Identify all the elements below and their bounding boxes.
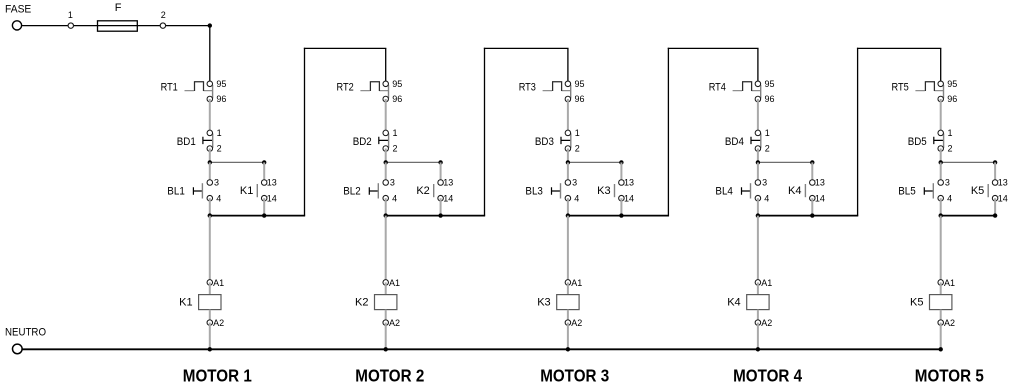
pin 4 of BL3 xyxy=(565,195,571,201)
wire: BL4.4 to node bottom of parallel section xyxy=(757,198,759,215)
svg-text:4: 4 xyxy=(947,193,952,203)
svg-text:3: 3 xyxy=(572,178,577,188)
wire: bottom rail to coil K4.A1 xyxy=(757,216,759,283)
junction node on NEUTRO xyxy=(756,347,760,351)
contact blade BD2 xyxy=(388,133,390,148)
junction node bottom right xyxy=(438,213,442,217)
junction node bottom left xyxy=(384,213,388,217)
terminal FASE xyxy=(12,21,21,30)
junction node at K4.13 branch xyxy=(810,160,814,164)
pin 3 of BL4 xyxy=(755,180,761,186)
junction node at K1.13 branch xyxy=(262,160,266,164)
pin 95 of RT1 xyxy=(207,81,213,87)
wire: parallel section bottom rail xyxy=(386,215,485,217)
svg-text:A1: A1 xyxy=(944,278,955,288)
contactor coil K5 xyxy=(930,295,952,310)
svg-text:K4: K4 xyxy=(788,185,801,197)
pin A1 of coil K1 xyxy=(207,280,213,286)
svg-text:F: F xyxy=(115,2,122,14)
wire: bottom rail to coil K1.A1 xyxy=(209,216,211,283)
svg-text:RT4: RT4 xyxy=(709,82,726,94)
wire: FASE line xyxy=(21,25,209,27)
wire: A1 to coil body xyxy=(209,282,211,294)
wire: A1 to coil body xyxy=(567,282,569,294)
svg-text:13: 13 xyxy=(267,178,277,188)
pin 13 of K3 xyxy=(619,180,625,186)
wire: node to BL3.3 xyxy=(567,162,569,182)
pin 2 of BD2 xyxy=(383,146,389,152)
wire: BD3.2 to node top of parallel section xyxy=(567,149,569,163)
svg-text:BL1: BL1 xyxy=(167,186,185,198)
pin 2 of BD4 xyxy=(755,146,761,152)
svg-text:95: 95 xyxy=(216,79,226,89)
wire: A1 to coil body xyxy=(940,282,942,294)
wire: K5.A2 to NEUTRO xyxy=(940,323,942,350)
contact blade RT1 xyxy=(212,85,214,99)
wire: K3.14 to bottom rail xyxy=(620,198,622,215)
wire: K3.A2 to NEUTRO xyxy=(567,323,569,350)
contact blade RT3 xyxy=(570,85,572,99)
pin 13 of K2 xyxy=(438,180,444,186)
pin 4 of BL5 xyxy=(938,195,944,201)
pin 14 of K3 xyxy=(619,195,625,201)
wire: supply drop to RT1 xyxy=(209,26,211,84)
svg-text:95: 95 xyxy=(392,79,402,89)
junction node bottom left xyxy=(208,213,212,217)
pin A2 of coil K2 xyxy=(383,320,389,326)
svg-text:2: 2 xyxy=(393,144,398,154)
wire: K2.A2 to NEUTRO xyxy=(385,323,387,350)
wire: feeder riser from MOTOR 4 section xyxy=(857,48,859,216)
wire: node to K5.13 xyxy=(994,162,996,182)
pushbutton BD3 actuator xyxy=(561,137,571,144)
junction node on NEUTRO xyxy=(939,347,943,351)
svg-text:BL2: BL2 xyxy=(343,186,361,198)
junction node at K5.13 branch xyxy=(993,160,997,164)
wire: supply drop to RT4 xyxy=(757,48,759,83)
svg-text:K2: K2 xyxy=(355,296,368,308)
wire: BL3.4 to node bottom of parallel section xyxy=(567,198,569,215)
junction node bottom left xyxy=(566,213,570,217)
pin 14 of K2 xyxy=(438,195,444,201)
wire: supply drop to RT5 xyxy=(940,48,942,83)
svg-text:2: 2 xyxy=(948,144,953,154)
svg-text:A2: A2 xyxy=(213,318,224,328)
junction node at K3.13 branch xyxy=(619,160,623,164)
pin 4 of BL4 xyxy=(755,195,761,201)
wire: node to BL1.3 xyxy=(209,162,211,182)
svg-text:MOTOR 1: MOTOR 1 xyxy=(183,366,252,386)
pin 2 of BD3 xyxy=(565,146,571,152)
contact blade BD4 xyxy=(760,133,762,148)
contact blade BL4 xyxy=(750,183,752,198)
wire: coil body to A2 xyxy=(757,310,759,323)
pin 96 of RT5 xyxy=(938,96,944,102)
pin 1 of BD3 xyxy=(565,130,571,136)
svg-text:4: 4 xyxy=(574,193,579,203)
pin A2 of coil K4 xyxy=(755,320,761,326)
contact blade RT2 xyxy=(388,85,390,99)
svg-text:BD3: BD3 xyxy=(535,136,554,148)
svg-text:K4: K4 xyxy=(727,296,740,308)
contact blade K3 aux xyxy=(614,184,616,197)
wire: node to K1.13 xyxy=(263,162,265,182)
wire: parallel section top rail xyxy=(758,161,812,163)
wire: K1.14 to bottom rail xyxy=(263,198,265,215)
contact blade BD3 xyxy=(570,133,572,148)
svg-text:3: 3 xyxy=(390,178,395,188)
pin 1 of fuse F xyxy=(68,23,73,28)
svg-text:K5: K5 xyxy=(971,185,984,197)
wire: parallel section bottom rail xyxy=(568,215,669,217)
thermal overload contact RT1 actuator xyxy=(185,82,213,91)
pin 95 of RT5 xyxy=(938,81,944,87)
wire: node to BL5.3 xyxy=(940,162,942,182)
thermal overload contact RT4 actuator xyxy=(733,82,761,91)
wire: coil body to A2 xyxy=(567,310,569,323)
wire: bottom rail to coil K3.A1 xyxy=(567,216,569,283)
wire: RT5.96 to BD5.1 xyxy=(940,99,942,133)
svg-text:1: 1 xyxy=(393,128,398,138)
wire: feeder riser from MOTOR 1 section xyxy=(304,48,306,216)
wire: RT3.96 to BD3.1 xyxy=(567,99,569,133)
wire: node to BL4.3 xyxy=(757,162,759,182)
pin 14 of K1 xyxy=(261,195,267,201)
junction node at BL3.3 branch xyxy=(566,160,570,164)
svg-text:96: 96 xyxy=(575,94,585,104)
pin A2 of coil K5 xyxy=(938,320,944,326)
pin 96 of RT2 xyxy=(383,96,389,102)
wire: BD5.2 to node top of parallel section xyxy=(940,149,942,163)
contact blade RT4 xyxy=(760,85,762,99)
junction node at BL5.3 branch xyxy=(939,160,943,164)
contactor coil K2 xyxy=(375,295,397,310)
svg-text:A1: A1 xyxy=(761,278,772,288)
pushbutton BL2 actuator xyxy=(369,187,378,195)
svg-text:A2: A2 xyxy=(944,318,955,328)
svg-text:96: 96 xyxy=(765,94,775,104)
svg-text:96: 96 xyxy=(947,94,957,104)
thermal overload contact RT5 actuator xyxy=(915,82,943,91)
wire: feeder riser from MOTOR 3 section xyxy=(667,48,669,216)
pin 13 of K5 xyxy=(992,180,998,186)
svg-text:RT5: RT5 xyxy=(892,82,909,94)
svg-text:13: 13 xyxy=(624,178,634,188)
contact blade BD1 xyxy=(212,133,214,148)
svg-text:MOTOR 3: MOTOR 3 xyxy=(540,366,609,386)
wire: feeder top run to branch 5 xyxy=(857,47,941,49)
svg-text:BD2: BD2 xyxy=(353,136,372,148)
wire: parallel section top rail xyxy=(386,161,441,163)
svg-text:4: 4 xyxy=(764,193,769,203)
pin 2 of BD1 xyxy=(207,146,213,152)
svg-text:A1: A1 xyxy=(389,278,400,288)
pushbutton BL4 actuator xyxy=(742,187,751,195)
pin 2 of BD5 xyxy=(938,146,944,152)
svg-text:95: 95 xyxy=(947,79,957,89)
svg-text:K2: K2 xyxy=(416,185,429,197)
pin 3 of BL5 xyxy=(938,180,944,186)
junction node at K2.13 branch xyxy=(438,160,442,164)
svg-text:4: 4 xyxy=(392,193,397,203)
junction node at BL1.3 branch xyxy=(208,160,212,164)
svg-text:14: 14 xyxy=(998,193,1008,203)
wire: RT1.96 to BD1.1 xyxy=(209,99,211,133)
junction node on NEUTRO xyxy=(208,347,212,351)
junction node bottom left xyxy=(939,213,943,217)
svg-text:BD5: BD5 xyxy=(908,136,927,148)
svg-text:3: 3 xyxy=(945,178,950,188)
wire: A1 to coil body xyxy=(757,282,759,294)
pin 1 of BD4 xyxy=(755,130,761,136)
terminal NEUTRO xyxy=(12,344,22,354)
svg-text:14: 14 xyxy=(624,193,634,203)
junction node on NEUTRO xyxy=(384,347,388,351)
wire: parallel section bottom rail xyxy=(210,215,305,217)
pin A1 of coil K2 xyxy=(383,280,389,286)
pin 95 of RT3 xyxy=(565,81,571,87)
wire: coil body to A2 xyxy=(209,310,211,323)
junction node bottom right xyxy=(993,213,997,217)
pin 13 of K4 xyxy=(810,180,816,186)
svg-text:MOTOR 4: MOTOR 4 xyxy=(733,366,802,386)
junction: fuse output node xyxy=(208,23,212,27)
pin 95 of RT2 xyxy=(383,81,389,87)
wire: RT4.96 to BD4.1 xyxy=(757,99,759,133)
svg-text:2: 2 xyxy=(161,10,166,20)
contact blade BL5 xyxy=(932,183,934,198)
svg-text:K1: K1 xyxy=(179,296,192,308)
wire: K4.14 to bottom rail xyxy=(811,198,813,215)
pin A1 of coil K4 xyxy=(755,280,761,286)
svg-text:A2: A2 xyxy=(571,318,582,328)
wire: A1 to coil body xyxy=(385,282,387,294)
pin 96 of RT4 xyxy=(755,96,761,102)
contact blade BD5 xyxy=(943,133,945,148)
svg-text:1: 1 xyxy=(765,128,770,138)
wire: node to K3.13 xyxy=(620,162,622,182)
wire: coil body to A2 xyxy=(385,310,387,323)
pushbutton BD4 actuator xyxy=(751,137,761,144)
pin 1 of BD2 xyxy=(383,130,389,136)
wire: bottom rail to coil K2.A1 xyxy=(385,216,387,283)
svg-text:K3: K3 xyxy=(597,185,610,197)
svg-text:96: 96 xyxy=(392,94,402,104)
wire: BD4.2 to node top of parallel section xyxy=(757,149,759,163)
junction node bottom right xyxy=(810,213,814,217)
wire: BL1.4 to node bottom of parallel section xyxy=(209,198,211,215)
svg-text:1: 1 xyxy=(575,128,580,138)
svg-text:1: 1 xyxy=(68,10,73,20)
contact blade BL3 xyxy=(560,183,562,198)
junction node bottom right xyxy=(262,213,266,217)
wire: parallel section bottom rail xyxy=(758,215,858,217)
svg-text:1: 1 xyxy=(217,128,222,138)
pin 2 of fuse F xyxy=(160,23,165,28)
svg-text:K5: K5 xyxy=(910,296,923,308)
pin 95 of RT4 xyxy=(755,81,761,87)
svg-text:13: 13 xyxy=(815,178,825,188)
svg-text:FASE: FASE xyxy=(5,3,31,15)
contact blade RT5 xyxy=(943,85,945,99)
pin 13 of K1 xyxy=(261,180,267,186)
wire: parallel section bottom rail xyxy=(941,215,995,217)
junction node at BL2.3 branch xyxy=(384,160,388,164)
svg-text:4: 4 xyxy=(216,193,221,203)
wire: feeder top run to branch 2 xyxy=(304,47,387,49)
pin 1 of BD5 xyxy=(938,130,944,136)
pin 96 of RT1 xyxy=(207,96,213,102)
svg-text:BL3: BL3 xyxy=(525,186,543,198)
svg-text:3: 3 xyxy=(214,178,219,188)
svg-text:2: 2 xyxy=(217,144,222,154)
svg-text:MOTOR 5: MOTOR 5 xyxy=(915,366,984,386)
pin A1 of coil K3 xyxy=(565,280,571,286)
wire: NEUTRO line xyxy=(22,348,941,350)
wire: BD1.2 to node top of parallel section xyxy=(209,149,211,163)
svg-text:13: 13 xyxy=(443,178,453,188)
wire: K2.14 to bottom rail xyxy=(440,198,442,215)
contact blade K5 aux xyxy=(987,184,989,197)
wire: K5.14 to bottom rail xyxy=(994,198,996,215)
svg-text:NEUTRO: NEUTRO xyxy=(5,326,46,338)
svg-text:A2: A2 xyxy=(761,318,772,328)
pushbutton BL1 actuator xyxy=(193,187,202,195)
contactor coil K3 xyxy=(557,295,579,310)
junction node bottom right xyxy=(619,213,623,217)
pin 96 of RT3 xyxy=(565,96,571,102)
svg-text:A2: A2 xyxy=(389,318,400,328)
pin 14 of K5 xyxy=(992,195,998,201)
svg-text:13: 13 xyxy=(998,178,1008,188)
wire: BL5.4 to node bottom of parallel section xyxy=(940,198,942,215)
pin 1 of BD1 xyxy=(207,130,213,136)
wire: feeder top run to branch 3 xyxy=(484,47,569,49)
pin A1 of coil K5 xyxy=(938,280,944,286)
svg-text:MOTOR 2: MOTOR 2 xyxy=(355,366,424,386)
wire: feeder top run to branch 4 xyxy=(668,47,759,49)
thermal overload contact RT2 actuator xyxy=(360,82,388,91)
contact blade BL2 xyxy=(377,183,379,198)
thermal overload contact RT3 actuator xyxy=(543,82,571,91)
contact blade BL1 xyxy=(201,183,203,198)
fuse F xyxy=(98,21,138,31)
wire: node to K2.13 xyxy=(440,162,442,182)
svg-text:K1: K1 xyxy=(240,185,253,197)
contact blade K2 aux xyxy=(433,184,435,197)
pushbutton BD5 actuator xyxy=(934,137,944,144)
svg-text:96: 96 xyxy=(216,94,226,104)
svg-text:BD4: BD4 xyxy=(725,136,744,148)
pin 3 of BL2 xyxy=(383,180,389,186)
svg-text:BL5: BL5 xyxy=(898,186,916,198)
pin 4 of BL2 xyxy=(383,195,389,201)
contact blade K1 aux xyxy=(256,184,258,197)
svg-text:K3: K3 xyxy=(537,296,550,308)
pushbutton BD2 actuator xyxy=(379,137,389,144)
pushbutton BD1 actuator xyxy=(203,137,213,144)
wire: coil body to A2 xyxy=(940,310,942,323)
wire: K4.A2 to NEUTRO xyxy=(757,323,759,350)
wire: BL2.4 to node bottom of parallel section xyxy=(385,198,387,215)
svg-text:2: 2 xyxy=(765,144,770,154)
junction node at BL4.3 branch xyxy=(756,160,760,164)
pin 4 of BL1 xyxy=(207,195,213,201)
svg-text:BD1: BD1 xyxy=(177,136,196,148)
pin 3 of BL1 xyxy=(207,180,213,186)
wire: BD2.2 to node top of parallel section xyxy=(385,149,387,163)
contactor coil K1 xyxy=(199,295,221,310)
contactor coil K4 xyxy=(747,295,769,310)
svg-text:14: 14 xyxy=(815,193,825,203)
pushbutton BL3 actuator xyxy=(552,187,561,195)
pushbutton BL5 actuator xyxy=(924,187,933,195)
svg-text:RT2: RT2 xyxy=(337,82,354,94)
wire: K1.A2 to NEUTRO xyxy=(209,323,211,350)
wire: parallel section top rail xyxy=(568,161,622,163)
pin A2 of coil K3 xyxy=(565,320,571,326)
wire: bottom rail to coil K5.A1 xyxy=(940,216,942,283)
wire: parallel section top rail xyxy=(210,161,264,163)
junction node on NEUTRO xyxy=(566,347,570,351)
wire: node to K4.13 xyxy=(811,162,813,182)
wire: supply drop to RT2 xyxy=(385,48,387,83)
svg-text:14: 14 xyxy=(267,193,277,203)
junction node bottom left xyxy=(756,213,760,217)
svg-text:95: 95 xyxy=(575,79,585,89)
pin A2 of coil K1 xyxy=(207,320,213,326)
wire: feeder riser from MOTOR 2 section xyxy=(484,48,486,216)
pin 14 of K4 xyxy=(810,195,816,201)
svg-text:14: 14 xyxy=(443,193,453,203)
pin 3 of BL3 xyxy=(565,180,571,186)
wire: parallel section top rail xyxy=(941,161,995,163)
svg-text:1: 1 xyxy=(948,128,953,138)
wire: RT2.96 to BD2.1 xyxy=(385,99,387,133)
contact blade K4 aux xyxy=(804,184,806,197)
wire: supply drop to RT3 xyxy=(567,48,569,83)
svg-text:RT3: RT3 xyxy=(519,82,536,94)
svg-text:BL4: BL4 xyxy=(715,186,733,198)
svg-text:3: 3 xyxy=(762,178,767,188)
svg-text:95: 95 xyxy=(765,79,775,89)
svg-text:2: 2 xyxy=(575,144,580,154)
svg-text:RT1: RT1 xyxy=(161,82,178,94)
svg-text:A1: A1 xyxy=(213,278,224,288)
svg-text:A1: A1 xyxy=(571,278,582,288)
wire: node to BL2.3 xyxy=(385,162,387,182)
